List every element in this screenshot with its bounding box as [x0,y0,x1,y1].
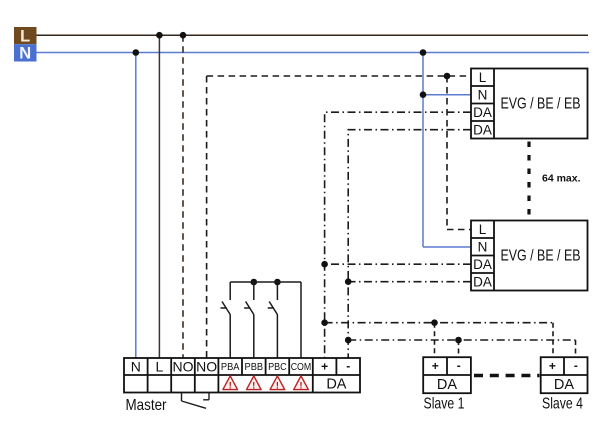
svg-text:L: L [479,70,487,85]
svg-text:N: N [478,87,488,102]
svg-text:PBC: PBC [268,362,287,373]
svg-text:DA: DA [473,274,492,289]
svg-text:64 max.: 64 max. [542,173,581,185]
svg-text:DA: DA [473,257,492,272]
svg-text:EVG / BE / EB: EVG / BE / EB [501,96,581,113]
svg-text:-: - [346,359,350,373]
svg-text:PBB: PBB [245,362,264,373]
svg-text:N: N [19,45,31,63]
svg-text:L: L [20,27,30,45]
svg-text:+: + [549,359,556,373]
svg-text:N: N [478,239,488,254]
svg-text:PBA: PBA [221,362,240,373]
svg-text:DA: DA [326,377,346,393]
svg-text:-: - [574,359,578,373]
svg-text:L: L [479,222,487,237]
svg-text:DA: DA [437,377,457,393]
svg-text:-: - [457,359,461,373]
svg-text:NO: NO [173,359,194,375]
svg-text:Slave 4: Slave 4 [542,396,583,413]
svg-text:!: ! [276,380,279,390]
svg-text:N: N [131,359,141,375]
svg-text:DA: DA [554,377,574,393]
svg-text:EVG / BE / EB: EVG / BE / EB [501,248,581,265]
svg-text:!: ! [300,380,303,390]
svg-text:!: ! [252,380,255,390]
svg-text:+: + [432,359,439,373]
svg-text:DA: DA [473,122,492,137]
svg-text:COM: COM [291,362,312,373]
svg-text:+: + [321,360,328,374]
svg-text:Master: Master [126,397,168,414]
svg-text:DA: DA [473,105,492,120]
svg-text:Slave 1: Slave 1 [424,396,465,413]
svg-text:L: L [156,359,164,375]
svg-text:NO: NO [196,359,217,375]
svg-text:!: ! [229,380,232,390]
